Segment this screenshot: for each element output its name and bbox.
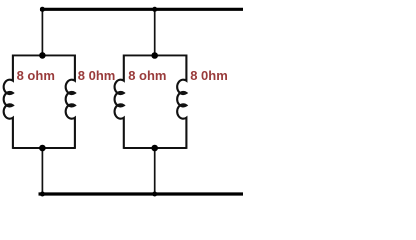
junction dot: bottom bus / group2 feed [152, 192, 157, 197]
svg-text:8 ohm: 8 ohm [128, 68, 166, 83]
inductor L3 (8 ohm, group 2 left) [115, 55, 124, 149]
node dot: group 1 bottom [39, 145, 46, 152]
svg-text:8 0hm: 8 0hm [78, 68, 116, 83]
inductor L1 (8 ohm, group 1 left) [4, 55, 13, 149]
junction dot: top bus / group1 feed [40, 7, 45, 12]
bottom bus wire [39, 192, 244, 195]
inductor L2 (8 0hm, group 1 right) [66, 55, 75, 149]
wire: top feed to group 2 [154, 9, 156, 55]
node dot: group 2 bottom [151, 145, 158, 152]
node dot: group 2 top [151, 52, 158, 59]
wire: group 2 bottom rail [124, 147, 187, 149]
top bus wire [40, 8, 243, 11]
wire: group 1 bottom rail [13, 147, 75, 149]
wire: group 2 top rail [124, 54, 187, 56]
inductor L4 (8 0hm, group 2 right) [177, 55, 186, 149]
wire: top feed to group 1 [41, 9, 43, 55]
wire: bottom feed from group 2 [154, 148, 156, 194]
svg-text:8 0hm: 8 0hm [190, 68, 228, 83]
wire: bottom feed from group 1 [41, 148, 43, 194]
junction dot: bottom bus / group1 feed [40, 192, 45, 197]
wire: group 1 top rail [13, 54, 75, 56]
node dot: group 1 top [39, 52, 46, 59]
junction dot: top bus / group2 feed [152, 7, 157, 12]
svg-text:8 ohm: 8 ohm [17, 68, 55, 83]
